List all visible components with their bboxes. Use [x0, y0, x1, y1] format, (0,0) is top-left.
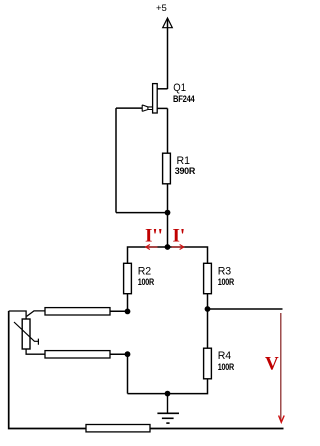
current arrow I' (right): [172, 245, 184, 250]
node C junction (R2 / upper strip): [125, 309, 131, 315]
wire node D to R4: [207, 309, 209, 348]
gate feedback loop wire (bottom horizontal): [116, 212, 168, 214]
left rail wire: [9, 311, 284, 429]
transistor Q1: [142, 84, 167, 113]
bottom resistor (series element): [86, 425, 150, 432]
wire upper strip to node C: [110, 310, 128, 312]
node A junction (gate tie): [165, 210, 171, 216]
resistor R3: [204, 263, 212, 293]
ground: [157, 394, 179, 424]
wire supply to Q1 drain: [167, 20, 169, 90]
svg-text:100R: 100R: [218, 277, 235, 287]
svg-text:R4: R4: [218, 350, 232, 362]
resistor R2: [124, 263, 132, 293]
svg-text:Q1: Q1: [173, 82, 186, 94]
svg-text:+5: +5: [156, 3, 167, 14]
wire R2 bottom to node C: [127, 294, 129, 312]
svg-text:V: V: [265, 353, 279, 374]
wire R3 bottom to node D: [207, 294, 209, 309]
svg-text:100R: 100R: [218, 362, 235, 372]
current arrow I'' (left): [146, 245, 158, 250]
svg-text:100R: 100R: [138, 277, 155, 287]
bridge top bus wire: [128, 247, 208, 263]
voltage arrow V: [279, 313, 285, 422]
gate feedback loop wire (left vertical): [115, 108, 117, 213]
node B junction (bridge top): [165, 244, 171, 250]
wire lower strip to node F: [110, 353, 128, 355]
wire upper strip left to trimmer top: [27, 311, 45, 317]
node D junction (R3 / R4 / output): [205, 306, 211, 312]
lower strip resistor (sensor element): [45, 351, 110, 358]
power +5 supply symbol: [156, 3, 172, 28]
svg-text:390R: 390R: [175, 166, 196, 176]
wire node F down to ground rail: [127, 354, 129, 393]
resistor R1: [163, 153, 171, 184]
wire Q1 source to R1: [167, 108, 169, 153]
node E junction (ground tie): [165, 391, 171, 397]
wire node D to output (right): [208, 308, 283, 310]
wire R4 bottom to ground rail: [128, 379, 208, 394]
resistor R4: [204, 348, 212, 379]
gate wire: [116, 107, 142, 109]
trimmer potentiometer: [14, 319, 38, 349]
wire trimmer top pin to left rail: [9, 311, 26, 319]
upper strip resistor (sensor element): [45, 308, 110, 315]
svg-text:I': I': [173, 226, 186, 247]
node F junction (lower strip / return): [125, 351, 131, 357]
wire R1 bottom to node A: [167, 184, 169, 247]
svg-text:BF244: BF244: [173, 94, 195, 104]
svg-text:I'': I'': [145, 226, 163, 247]
wire trimmer bottom pin to lower strip: [26, 349, 45, 354]
